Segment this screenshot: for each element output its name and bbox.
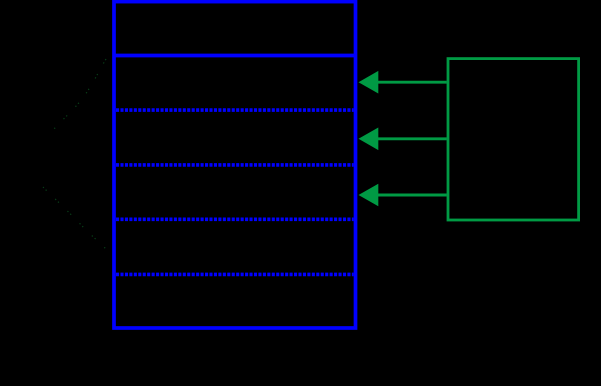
faint brace trace upper segment: [54, 59, 106, 129]
dashed divider below row 2: [116, 108, 354, 112]
arrow 1 into row 2: [359, 71, 447, 94]
arrow 3 into row 4: [359, 184, 447, 207]
solid divider below row 1: [114, 54, 356, 58]
dashed divider below row 4: [116, 218, 354, 222]
green source box: [448, 59, 579, 220]
dashed divider below row 3: [116, 163, 354, 167]
dashed divider below row 5: [116, 273, 354, 277]
memory table outer box (blue): [114, 2, 356, 328]
arrow 2 into row 3: [359, 128, 447, 151]
faint brace trace lower segment: [43, 187, 106, 249]
